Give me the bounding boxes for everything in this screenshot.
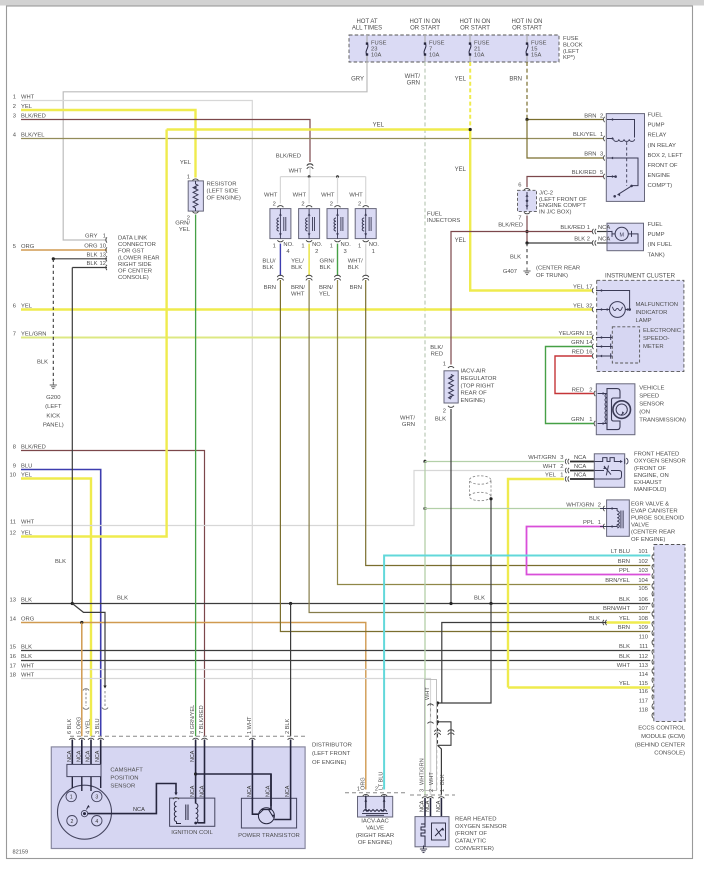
svg-text:POSITION: POSITION bbox=[110, 776, 138, 782]
power transistor box bbox=[241, 798, 296, 828]
svg-text:(LEFT: (LEFT bbox=[563, 49, 580, 55]
camshaft center bbox=[81, 810, 87, 816]
wire row17 WHT to ECM113 bbox=[21, 669, 650, 671]
svg-text:1: 1 bbox=[187, 175, 190, 181]
fuse F21 bbox=[469, 35, 471, 44]
svg-text:10: 10 bbox=[100, 244, 106, 250]
svg-text:(ON: (ON bbox=[639, 409, 650, 415]
wire BLK 491 down to rear O2 node bbox=[438, 604, 492, 704]
svg-text:YEL: YEL bbox=[573, 285, 585, 291]
svg-text:WHT/: WHT/ bbox=[405, 74, 421, 80]
svg-text:6: 6 bbox=[13, 303, 16, 309]
wire PPL ECM103 to EGR pin1 bbox=[527, 527, 651, 575]
svg-text:FUEL: FUEL bbox=[648, 113, 664, 119]
svg-text:WHT/GRN: WHT/GRN bbox=[528, 455, 556, 461]
fuel injector NO.1 box bbox=[355, 209, 376, 239]
svg-text:(FRONT OF: (FRONT OF bbox=[634, 466, 666, 472]
node BLK condenser top bbox=[489, 497, 492, 500]
svg-text:BLOCK: BLOCK bbox=[563, 42, 583, 48]
svg-text:3: 3 bbox=[344, 249, 347, 255]
svg-text:YEL: YEL bbox=[179, 227, 191, 233]
svg-text:NCA: NCA bbox=[574, 473, 586, 479]
svg-text:CONSOLE): CONSOLE) bbox=[118, 275, 149, 281]
wire row3 BLK/RED to injector feed bbox=[21, 120, 310, 163]
wire WHT/GRN to EGR pin2 bbox=[425, 508, 603, 510]
ECM pin 108 YEL bbox=[652, 621, 653, 626]
wire WHT riser injector 1 bbox=[365, 177, 367, 204]
svg-text:1: 1 bbox=[357, 787, 360, 793]
svg-text:115: 115 bbox=[639, 681, 648, 687]
rear O2 sensor box bbox=[415, 817, 449, 847]
wire WHT riser injector 4 bbox=[279, 177, 281, 204]
svg-text:118: 118 bbox=[639, 708, 648, 714]
wire BRN/WHT injector2 to ECM107 bbox=[309, 280, 650, 613]
svg-text:110: 110 bbox=[639, 635, 648, 641]
camshaft rotor point 2 bbox=[67, 816, 77, 826]
relay internal pin2 lead bbox=[607, 120, 635, 138]
svg-text:WHT: WHT bbox=[21, 519, 35, 525]
svg-text:(LOWER REAR: (LOWER REAR bbox=[118, 255, 160, 261]
svg-text:BLK/RED: BLK/RED bbox=[276, 154, 301, 160]
svg-text:2: 2 bbox=[598, 502, 601, 508]
ECM pin 103 PPL bbox=[652, 573, 653, 578]
ECM pin 101 LT BLU bbox=[652, 554, 653, 559]
svg-text:REAR OF: REAR OF bbox=[461, 391, 488, 397]
svg-text:OF ENGINE): OF ENGINE) bbox=[207, 196, 241, 202]
vehicle speed sensor box bbox=[596, 384, 635, 435]
wire WHT/GRN to front O2 pin3 bbox=[425, 461, 564, 463]
svg-text:VALVE: VALVE bbox=[631, 523, 649, 529]
fuse block box bbox=[349, 35, 559, 62]
connector injector feed bbox=[307, 164, 313, 166]
svg-text:NCA: NCA bbox=[247, 785, 253, 797]
malfunction indicator lamp bbox=[610, 302, 626, 318]
svg-text:EVAP CANISTER: EVAP CANISTER bbox=[631, 508, 678, 514]
svg-text:REGULATOR: REGULATOR bbox=[461, 376, 497, 382]
svg-text:YEL: YEL bbox=[619, 616, 631, 622]
svg-text:BRN: BRN bbox=[264, 285, 276, 291]
svg-text:BLK: BLK bbox=[619, 597, 630, 603]
svg-text:4 YEL: 4 YEL bbox=[86, 719, 92, 734]
svg-text:1: 1 bbox=[330, 244, 333, 250]
svg-text:CAMSHAFT: CAMSHAFT bbox=[110, 768, 143, 774]
wire BLK/RED to fuel pump pin1 bbox=[527, 231, 592, 233]
svg-text:ALL TIMES: ALL TIMES bbox=[352, 26, 382, 32]
node BLK rear O2 top bbox=[436, 701, 439, 704]
VSS internals bbox=[598, 393, 608, 395]
wire WHT into power transistor bbox=[252, 740, 258, 815]
wire row2 YEL to resistor bbox=[21, 110, 196, 178]
wire YEL front O2 pin1 bbox=[508, 479, 564, 688]
svg-text:WHT: WHT bbox=[21, 672, 35, 678]
svg-text:PANEL): PANEL) bbox=[43, 423, 64, 429]
svg-text:FUSE: FUSE bbox=[563, 36, 579, 42]
svg-text:WHT/: WHT/ bbox=[348, 259, 363, 265]
svg-text:NCA: NCA bbox=[436, 800, 442, 812]
cluster pin16 internal bbox=[596, 355, 612, 357]
svg-text:EXHAUST: EXHAUST bbox=[634, 480, 662, 486]
front O2 sensor symbol bbox=[594, 470, 604, 472]
svg-text:OR START: OR START bbox=[410, 26, 440, 32]
svg-text:WHT/: WHT/ bbox=[400, 416, 415, 422]
wire BLK condenser down bbox=[490, 499, 492, 604]
svg-text:113: 113 bbox=[639, 663, 648, 669]
resistor zigzag bbox=[193, 184, 198, 208]
svg-text:GRN: GRN bbox=[571, 417, 584, 423]
svg-text:SENSOR: SENSOR bbox=[639, 401, 664, 407]
svg-text:5: 5 bbox=[600, 170, 603, 176]
svg-text:SPEED: SPEED bbox=[639, 393, 659, 399]
svg-text:WHT: WHT bbox=[425, 687, 431, 700]
svg-text:BLK: BLK bbox=[589, 616, 600, 622]
wire NCA camshaft 3 bbox=[100, 740, 102, 765]
svg-text:BLK/RED: BLK/RED bbox=[21, 444, 46, 450]
ECM pin 104 BRN/YEL bbox=[652, 583, 653, 588]
wire row13 BLK to ECM106 bbox=[21, 603, 650, 605]
svg-text:NCA: NCA bbox=[133, 807, 145, 813]
svg-text:YEL: YEL bbox=[373, 123, 385, 129]
svg-text:RED: RED bbox=[431, 352, 443, 358]
svg-text:BLK: BLK bbox=[619, 654, 630, 660]
wire NCA camshaft 6 bbox=[71, 740, 73, 765]
svg-text:MALFUNCTION: MALFUNCTION bbox=[636, 302, 679, 308]
svg-text:104: 104 bbox=[638, 578, 648, 584]
wire row18 WHT to rear O2 bbox=[21, 679, 431, 796]
svg-text:6 BLK: 6 BLK bbox=[67, 718, 73, 734]
svg-text:111: 111 bbox=[639, 644, 648, 650]
ECM pin 112 BLK bbox=[652, 659, 653, 664]
svg-text:(IN RELAY: (IN RELAY bbox=[648, 143, 676, 149]
wire WHT riser injector 2 bbox=[308, 177, 310, 204]
wire BRN injector1 to ECM102 bbox=[366, 280, 651, 566]
svg-text:11: 11 bbox=[10, 519, 16, 525]
svg-text:VALVE: VALVE bbox=[366, 826, 384, 832]
connector break injector 3 bbox=[334, 275, 340, 277]
svg-text:14: 14 bbox=[10, 616, 17, 622]
wire GRN/YEL into coil bbox=[195, 740, 197, 804]
svg-text:DISTRIBUTOR: DISTRIBUTOR bbox=[312, 742, 352, 748]
rear O2 connector dashed bbox=[410, 794, 455, 796]
wire BLK dashed to G200 bbox=[52, 259, 54, 381]
node BLK rear O2 mid bbox=[436, 720, 439, 723]
svg-text:15: 15 bbox=[10, 644, 16, 650]
wire NCA camshaft 5 bbox=[81, 740, 83, 765]
svg-text:GRN: GRN bbox=[407, 81, 420, 87]
svg-text:32: 32 bbox=[586, 303, 592, 309]
svg-text:G200: G200 bbox=[46, 395, 61, 401]
svg-text:101: 101 bbox=[638, 549, 648, 555]
ECM pin 114 bbox=[652, 678, 653, 683]
wire NCA to power transistor bbox=[196, 774, 271, 806]
relay internal pin5 lead bbox=[607, 176, 615, 178]
wire BLU/BLK injector 4 bbox=[279, 244, 281, 276]
wire WHT injector bus bbox=[280, 176, 365, 178]
svg-text:NCA: NCA bbox=[598, 237, 610, 243]
svg-text:INJECTORS: INJECTORS bbox=[427, 218, 460, 224]
IACV air regulator box bbox=[444, 371, 458, 403]
svg-text:1: 1 bbox=[372, 249, 375, 255]
wire row11 WHT to front O2 pin2 bbox=[21, 471, 564, 526]
svg-text:BLK/YEL: BLK/YEL bbox=[21, 132, 45, 138]
IACV-AAC connector dashed bbox=[345, 792, 405, 794]
svg-text:1: 1 bbox=[440, 789, 446, 792]
svg-text:ENGINE: ENGINE bbox=[648, 173, 671, 179]
svg-text:82159: 82159 bbox=[13, 850, 29, 856]
svg-text:DATA LINK: DATA LINK bbox=[118, 236, 147, 242]
fuse F7 bbox=[424, 35, 426, 44]
camshaft rotor point 4 bbox=[92, 816, 102, 826]
wire ORG branch distributor pin5 bbox=[81, 623, 83, 737]
ground G407 bbox=[526, 268, 528, 272]
speedometer box bbox=[612, 327, 639, 363]
svg-text:6: 6 bbox=[518, 182, 521, 188]
svg-text:GRN: GRN bbox=[402, 422, 415, 428]
svg-text:NCA: NCA bbox=[95, 750, 101, 762]
svg-text:1: 1 bbox=[589, 417, 592, 423]
svg-text:WHT: WHT bbox=[21, 663, 35, 669]
svg-text:108: 108 bbox=[638, 616, 648, 622]
cluster pin14 internal bbox=[596, 346, 612, 348]
DLC pin10 ORG wire label bbox=[106, 247, 107, 252]
fuse F23 bbox=[366, 35, 368, 44]
svg-text:BLK: BLK bbox=[117, 596, 128, 602]
rear O2 internals bbox=[421, 817, 425, 843]
svg-text:G407: G407 bbox=[503, 269, 517, 275]
wire row8 BLK/RED to distributor pin7 bbox=[21, 451, 205, 737]
wire LT BLU ECM101 to IACV valve pin2 bbox=[384, 556, 650, 790]
svg-text:3: 3 bbox=[13, 113, 16, 119]
svg-text:3: 3 bbox=[419, 789, 425, 792]
svg-text:102: 102 bbox=[638, 559, 648, 565]
svg-text:FRONT OF: FRONT OF bbox=[648, 163, 678, 169]
svg-text:ORG: ORG bbox=[21, 244, 35, 250]
svg-text:GRN/: GRN/ bbox=[320, 259, 335, 265]
svg-text:1: 1 bbox=[358, 244, 361, 250]
wire row16 BLK to ECM112 bbox=[21, 660, 650, 662]
wire BLK loop detour bbox=[438, 722, 452, 746]
wire YEL/BLK injector 2 bbox=[308, 244, 310, 276]
svg-text:GRY: GRY bbox=[85, 234, 98, 240]
svg-text:1: 1 bbox=[103, 234, 106, 240]
svg-text:OF ENGINE): OF ENGINE) bbox=[312, 760, 346, 766]
wire BLK fuel pump pin2 bbox=[527, 242, 592, 244]
svg-text:BLU/: BLU/ bbox=[262, 259, 275, 265]
wire row14 ORG to IACV valve pin1 bbox=[21, 623, 366, 790]
page top gray strip bbox=[0, 0, 704, 6]
svg-text:GRN: GRN bbox=[571, 340, 584, 346]
wire BRN fuse15 drop dashed bbox=[526, 62, 528, 120]
wire row4 BLK/YEL to relay pin1 bbox=[21, 138, 603, 140]
svg-text:KICK: KICK bbox=[46, 413, 60, 419]
svg-text:BLK 2: BLK 2 bbox=[574, 237, 590, 243]
camshaft sensor circle bbox=[58, 785, 112, 839]
wire RED cluster pin16 bbox=[555, 356, 595, 394]
svg-text:(FRONT OF: (FRONT OF bbox=[455, 831, 487, 837]
svg-text:HOT IN ON: HOT IN ON bbox=[512, 19, 543, 25]
svg-text:NCA: NCA bbox=[425, 800, 431, 812]
wire WHT/GRN down to rear O2 bbox=[424, 509, 426, 796]
svg-text:BLK/RED: BLK/RED bbox=[572, 170, 597, 176]
svg-text:WHT: WHT bbox=[543, 464, 557, 470]
shield camshaft dashed box bbox=[86, 689, 105, 707]
svg-text:RESISTOR: RESISTOR bbox=[207, 182, 237, 188]
svg-text:NCA: NCA bbox=[190, 785, 196, 797]
fuel injector NO.1 coil symbol bbox=[365, 209, 367, 239]
svg-text:ENGINE, ON: ENGINE, ON bbox=[634, 473, 669, 479]
svg-text:YEL: YEL bbox=[545, 473, 557, 479]
cluster pin32 internal bbox=[596, 309, 610, 311]
svg-text:YEL: YEL bbox=[573, 303, 585, 309]
svg-text:ORG: ORG bbox=[84, 244, 98, 250]
svg-text:116: 116 bbox=[639, 689, 648, 695]
svg-text:(LEFT SIDE: (LEFT SIDE bbox=[207, 189, 239, 195]
svg-text:OR START: OR START bbox=[460, 26, 490, 32]
svg-text:YEL: YEL bbox=[180, 160, 192, 166]
svg-text:2: 2 bbox=[330, 202, 333, 208]
rear O2 NCA labels bbox=[424, 798, 426, 817]
IACV-AAC valve internals bbox=[365, 796, 367, 809]
svg-text:4: 4 bbox=[95, 819, 98, 825]
svg-text:(RIGHT REAR: (RIGHT REAR bbox=[356, 833, 394, 839]
svg-text:WHT/GRN: WHT/GRN bbox=[566, 502, 594, 508]
svg-text:15: 15 bbox=[586, 331, 592, 337]
svg-text:YEL: YEL bbox=[455, 167, 467, 173]
svg-text:12: 12 bbox=[10, 530, 16, 536]
svg-text:BRN: BRN bbox=[618, 625, 630, 631]
ECM pin 118 bbox=[652, 713, 653, 718]
wire WHT injector feed bbox=[309, 166, 311, 177]
svg-text:10A: 10A bbox=[429, 52, 439, 58]
wire GRN/YEL resistor to distributor pin8 bbox=[195, 215, 197, 737]
fuel injector NO.2 coil symbol bbox=[308, 209, 310, 239]
fuel injector NO.4 coil symbol bbox=[279, 209, 281, 239]
svg-text:ECCS CONTROL: ECCS CONTROL bbox=[638, 726, 686, 732]
svg-text:RELAY: RELAY bbox=[648, 133, 667, 139]
svg-text:106: 106 bbox=[638, 597, 648, 603]
svg-text:OR START: OR START bbox=[512, 26, 542, 32]
svg-text:YEL/: YEL/ bbox=[291, 259, 304, 265]
svg-text:1: 1 bbox=[598, 520, 601, 526]
svg-text:PUMP: PUMP bbox=[648, 232, 665, 238]
node WHT/GRN EGR junction bbox=[423, 507, 426, 510]
svg-text:FUEL: FUEL bbox=[648, 222, 664, 228]
connector break injector 4 bbox=[277, 275, 283, 277]
relay link dashed bbox=[626, 142, 628, 186]
svg-text:1 WHT: 1 WHT bbox=[247, 716, 253, 734]
svg-text:5: 5 bbox=[13, 244, 16, 250]
wire BLK/RED into coil bbox=[198, 740, 205, 823]
svg-text:WHT: WHT bbox=[349, 193, 363, 199]
svg-text:SPEEDO-: SPEEDO- bbox=[643, 336, 670, 342]
svg-text:18: 18 bbox=[10, 672, 16, 678]
wire WHT/GRN below front O2 bbox=[424, 462, 426, 509]
svg-text:INSTRUMENT CLUSTER: INSTRUMENT CLUSTER bbox=[605, 272, 676, 279]
svg-text:1: 1 bbox=[560, 473, 563, 479]
svg-text:WHT: WHT bbox=[429, 772, 435, 785]
svg-text:BRN/YEL: BRN/YEL bbox=[605, 578, 631, 584]
cluster pin15 internal bbox=[596, 337, 612, 339]
svg-text:BLK/RED 1: BLK/RED 1 bbox=[560, 225, 590, 231]
svg-text:ELECTRONIC: ELECTRONIC bbox=[643, 328, 682, 334]
relay K1 box bbox=[606, 114, 644, 202]
node BLK13 junction bbox=[52, 257, 55, 260]
svg-text:10A: 10A bbox=[371, 52, 381, 58]
svg-text:LAMP: LAMP bbox=[636, 318, 652, 324]
svg-text:MODULE (ECM): MODULE (ECM) bbox=[641, 734, 685, 740]
node YEL junction bbox=[469, 128, 472, 131]
distributor box bbox=[51, 747, 305, 849]
svg-text:2 BLK: 2 BLK bbox=[285, 718, 291, 734]
node lamp right bbox=[628, 308, 631, 311]
svg-text:PPL: PPL bbox=[583, 520, 595, 526]
svg-text:BLK: BLK bbox=[474, 596, 485, 602]
svg-text:3: 3 bbox=[95, 795, 98, 801]
svg-text:BLK: BLK bbox=[320, 265, 331, 271]
svg-text:HOT IN ON: HOT IN ON bbox=[460, 19, 491, 25]
svg-text:LT BLU: LT BLU bbox=[611, 549, 630, 555]
connector break injector 1 bbox=[363, 275, 369, 277]
ECM pin 109 BRN bbox=[652, 630, 653, 635]
svg-text:1: 1 bbox=[273, 244, 276, 250]
svg-text:WHT: WHT bbox=[264, 193, 278, 199]
wire BLK/RED branch to IACV regulator bbox=[451, 232, 527, 365]
svg-text:NCA: NCA bbox=[598, 225, 610, 231]
svg-text:BRN/: BRN/ bbox=[291, 285, 305, 291]
svg-text:3: 3 bbox=[560, 455, 563, 461]
JC2 internal arrow bbox=[526, 192, 528, 210]
resistor R box bbox=[188, 181, 203, 211]
svg-text:POWER TRANSISTOR: POWER TRANSISTOR bbox=[238, 833, 300, 839]
svg-text:MANIFOLD): MANIFOLD) bbox=[634, 487, 666, 493]
svg-text:2: 2 bbox=[589, 387, 592, 393]
cluster pin17 internal bbox=[596, 291, 630, 310]
svg-text:CATALYTIC: CATALYTIC bbox=[455, 839, 487, 845]
ground G200 bbox=[52, 382, 54, 386]
rear O2 ground bbox=[424, 843, 426, 847]
svg-text:GRY: GRY bbox=[351, 77, 364, 83]
node injector bus j2 bbox=[336, 175, 339, 178]
node BLK bus j451 bbox=[449, 602, 452, 605]
ECM pin 102 BRN bbox=[652, 564, 653, 569]
svg-text:YEL: YEL bbox=[455, 77, 467, 83]
svg-text:PURGE SOLENOID: PURGE SOLENOID bbox=[631, 516, 684, 522]
node injector bus j1 bbox=[308, 175, 311, 178]
svg-text:M: M bbox=[619, 232, 624, 238]
power transistor symbol bbox=[258, 808, 274, 824]
wire WHT riser injector 3 bbox=[337, 177, 339, 204]
svg-text:ENGINE): ENGINE) bbox=[461, 398, 486, 404]
ECM pin 106 BLK bbox=[652, 602, 653, 607]
ECM pin 105 bbox=[652, 591, 653, 596]
wire BLK into power transistor bbox=[274, 740, 290, 820]
wire BLK ECM108 to rear O2 bbox=[442, 623, 607, 704]
wire GRN cluster pin14 bbox=[546, 347, 595, 424]
wire BLK shield drain bbox=[72, 604, 105, 687]
camshaft rotor point 1 bbox=[66, 791, 76, 801]
svg-text:HOT IN ON: HOT IN ON bbox=[410, 19, 441, 25]
svg-text:WHT: WHT bbox=[21, 94, 35, 100]
fuse F15 bbox=[526, 35, 528, 44]
svg-text:BLK/RED: BLK/RED bbox=[21, 113, 46, 119]
front O2 heater symbol bbox=[594, 458, 621, 462]
node BLKRED junction fuel pump bbox=[525, 230, 528, 233]
svg-text:2: 2 bbox=[71, 819, 74, 825]
fuel injector NO.4 box bbox=[270, 209, 291, 239]
svg-text:107: 107 bbox=[638, 606, 648, 612]
svg-text:WHT: WHT bbox=[291, 291, 305, 297]
wire row5 ORG to DLC pin10 bbox=[21, 249, 107, 251]
svg-text:10A: 10A bbox=[474, 52, 484, 58]
